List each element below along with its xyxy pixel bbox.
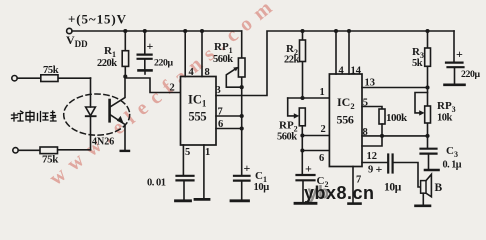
svg-text:1: 1 [205,147,210,158]
svg-text:12: 12 [367,151,378,162]
svg-text:10μ: 10μ [384,182,402,194]
svg-text:+: + [456,47,463,61]
svg-text:+: + [305,162,312,176]
watermark bottom text (decorative) [304,183,375,204]
svg-text:4N26: 4N26 [92,137,114,148]
wire 555 pin6 [216,119,244,131]
ground (555 pin1) [195,198,209,201]
wire 556 pin1 [300,87,329,100]
svg-text:6: 6 [218,119,223,130]
svg-text:13: 13 [365,78,376,89]
svg-text:0. 1μ: 0. 1μ [443,160,462,171]
potentiometer RP1 560k [213,31,245,95]
ground (under C2) [295,202,316,205]
watermark red diagonal (decorative) [45,0,282,190]
transistor of 4N26 [110,77,129,151]
wire 556 pin4 to rail [336,31,345,77]
svg-text:yb: yb [308,183,330,203]
wire 555 pin8 to VDD [202,31,210,78]
wire 555 pin7 [216,107,244,119]
wire 556 pin5 to 100k [362,98,382,110]
ground (right 220u) [445,84,465,87]
wire 556 pin13 [362,78,430,90]
capacitor 220u (left bypass) [138,31,174,69]
ground (under C1) [231,199,249,202]
resistor 100k [379,109,408,136]
svg-text:555: 555 [189,110,207,124]
ground (under 0.01) [176,199,191,202]
speaker B [421,174,443,197]
resistor R1 [97,31,129,79]
capacitor C2 [297,162,329,203]
wire VDD rail left segment [72,29,242,33]
wire 556 pin12 [362,136,382,162]
svg-text:9: 9 [368,165,373,176]
svg-text:10k: 10k [437,113,453,124]
svg-text:220μ: 220μ [461,69,480,80]
wire cap to speaker [393,163,421,188]
svg-text:7: 7 [218,107,223,118]
potentiometer RP2 560k [277,98,305,143]
ground (556 pin7) [349,202,361,205]
svg-text:220μ: 220μ [154,58,173,69]
label telephone line (接电话线) [12,111,57,122]
capacitor 220u (right) [446,31,480,84]
svg-text:100k: 100k [386,112,408,124]
svg-text:2: 2 [170,83,175,94]
wire 555 pin3 output to right rail [216,29,455,96]
capacitor 0.01 on 555 pin5 [147,145,194,200]
svg-text:+: + [147,39,154,53]
svg-text:8: 8 [205,67,210,78]
svg-text:220k: 220k [97,58,117,69]
timer IC2 556 [329,74,362,167]
svg-text:560k: 560k [213,54,233,65]
svg-text:14: 14 [351,66,362,77]
svg-text:10μ: 10μ [254,182,270,193]
wire RP1 bottom to C1 [241,95,243,175]
label +(5~15)V [68,12,127,27]
wire 555 pin4 to VDD [185,31,194,78]
potentiometer RP3 10k [415,88,456,136]
svg-text:560k: 560k [277,132,297,143]
svg-text:+: + [244,161,251,175]
wire 556 pin8 [362,127,430,138]
svg-text:5: 5 [363,98,368,109]
wire RP2 bottom to C2 [300,126,304,175]
svg-text:B: B [435,182,443,194]
svg-text:4: 4 [339,66,345,77]
label VDD [66,33,88,49]
svg-text:3: 3 [216,85,221,96]
resistor 75k (top line) [12,65,91,82]
capacitor C3 0.1u [421,136,462,171]
resistor R2 22k [284,31,306,98]
svg-text:1: 1 [320,87,325,98]
svg-text:556: 556 [337,113,354,127]
svg-text:+(5~15)V: +(5~15)V [68,12,127,27]
wire 555 pin2 to collector/R1 node [125,78,180,94]
resistor 75k (bottom line) [13,147,91,166]
ground (under left 220u) [139,70,152,74]
capacitor C1 10u [234,161,269,200]
wire 556 pin2 [302,124,329,136]
svg-text:8: 8 [363,127,368,138]
wire 556 pin6 [302,151,329,165]
svg-text:0. 01: 0. 01 [147,178,166,189]
svg-text:5: 5 [185,147,190,158]
svg-text:+: + [376,162,383,176]
svg-text:2: 2 [321,124,326,135]
wire 556 pin9 [362,162,388,176]
ground (speaker) [416,205,431,208]
op-amp U1: timer IC1 555 [181,77,217,146]
svg-text:6: 6 [319,153,324,164]
capacitor 10u coupling [384,155,402,194]
wire 556 pin14 to rail [349,31,362,77]
wire 556 pin7 to ground [353,167,361,203]
resistor R3 5k [412,31,431,88]
svg-text:75k: 75k [42,154,59,166]
svg-text:22k: 22k [284,55,300,66]
wire 555 pin1 to ground [204,145,210,198]
svg-text:4: 4 [189,67,195,78]
wire speaker to ground [422,193,424,204]
svg-text:75k: 75k [43,65,59,76]
svg-text:5k: 5k [412,58,423,69]
ground (under C3) [425,169,439,172]
diode LED of 4N26 [86,78,96,150]
optocoupler U2 4N26 outline [64,94,130,148]
node VDD terminal [67,28,72,33]
